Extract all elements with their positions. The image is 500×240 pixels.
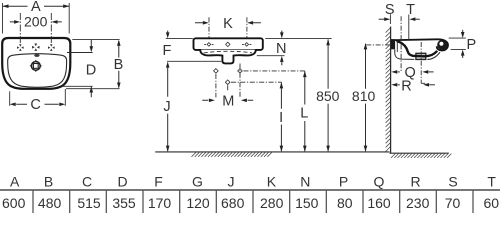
svg-text:Q: Q	[374, 174, 385, 190]
wall hatching	[386, 28, 391, 152]
svg-text:D: D	[117, 174, 127, 190]
svg-text:355: 355	[112, 195, 136, 211]
svg-text:R: R	[401, 78, 411, 94]
dimension K extension centrelines	[209, 17, 247, 37]
svg-text:B: B	[44, 174, 53, 190]
svg-text:T: T	[487, 174, 496, 190]
dimension N top arrow	[281, 31, 283, 34]
svg-text:L: L	[300, 106, 308, 122]
dimension I line and arrows	[280, 82, 282, 151]
dimension D extension lines	[63, 53, 93, 87]
svg-text:70: 70	[445, 195, 461, 211]
fixing hole centrelines vertical	[216, 64, 240, 98]
wall face line	[390, 27, 392, 153]
fixing hole centreline horizontal to L	[244, 70, 305, 72]
front tap hole centre	[226, 42, 230, 46]
wall face extension above	[389, 14, 391, 24]
dimension B extension lines	[66, 40, 120, 89]
drain symbol	[30, 60, 43, 73]
washbasin front lower body with drain notch	[200, 50, 255, 64]
svg-text:S: S	[448, 174, 457, 190]
drain centreline	[420, 42, 422, 83]
S/T shared centreline	[400, 16, 402, 72]
floor line	[155, 151, 389, 153]
svg-text:K: K	[267, 174, 277, 190]
svg-text:600: 600	[2, 195, 26, 211]
tap hole centre	[34, 44, 37, 47]
side profile rim and bullnose	[395, 39, 448, 50]
svg-text:K: K	[223, 16, 233, 32]
dimension B line and arrows	[118, 41, 120, 88]
underside extension line right	[257, 55, 285, 57]
table divider line	[0, 189, 500, 191]
svg-text:G: G	[192, 174, 203, 190]
fixing hole right diamond	[238, 69, 243, 74]
bullnose filled	[437, 40, 447, 50]
dimension 850 line and arrows	[327, 39, 329, 151]
svg-text:N: N	[276, 41, 286, 57]
front tap hole right	[245, 43, 249, 47]
dimension L line and arrows	[304, 71, 306, 151]
svg-text:D: D	[86, 62, 96, 78]
dimension 200 line and arrows	[10, 21, 62, 23]
svg-text:T: T	[406, 2, 415, 18]
svg-text:60: 60	[484, 195, 500, 211]
tap hole right	[50, 44, 53, 47]
dimension A extension lines	[3, 3, 70, 34]
svg-text:N: N	[300, 174, 310, 190]
svg-text:B: B	[114, 57, 124, 73]
table column separators	[33, 191, 473, 213]
dimension T extension line	[408, 15, 410, 40]
overflow slot	[34, 54, 39, 57]
svg-text:170: 170	[148, 195, 172, 211]
svg-text:A: A	[10, 174, 20, 190]
drain trap boss	[416, 53, 426, 59]
svg-text:200: 200	[24, 13, 48, 29]
dimension C line and arrows	[16, 103, 59, 105]
dimension K line and arrows	[195, 22, 261, 24]
waste centreline horizontal to I	[231, 81, 282, 83]
dimension N bottom arrow	[280, 56, 284, 62]
svg-text:680: 680	[221, 195, 245, 211]
svg-text:160: 160	[367, 195, 391, 211]
washbasin top-view inner bowl outline	[8, 54, 67, 88]
svg-text:S: S	[385, 2, 395, 18]
svg-text:F: F	[154, 174, 163, 190]
dimension J line and arrows	[167, 67, 169, 151]
rim level extension line	[166, 38, 332, 40]
svg-text:C: C	[82, 174, 92, 190]
svg-text:F: F	[162, 43, 171, 59]
svg-text:80: 80	[337, 195, 353, 211]
svg-text:P: P	[339, 174, 348, 190]
svg-text:M: M	[222, 94, 234, 110]
dimension R arrows	[391, 83, 397, 87]
svg-text:I: I	[279, 110, 283, 126]
washbasin front deck band	[194, 38, 263, 50]
dimension P extension lines	[449, 38, 466, 49]
svg-text:280: 280	[260, 195, 284, 211]
dimension M line and arrows	[202, 99, 253, 101]
dimension A line and arrows	[3, 5, 70, 7]
svg-text:J: J	[163, 99, 170, 115]
svg-text:850: 850	[316, 88, 340, 104]
dimension 200 extension centrelines	[20, 13, 51, 45]
dimension T arrow	[409, 17, 415, 21]
mounting bracket (section, filled)	[391, 39, 395, 49]
dimension F bottom arrow	[166, 62, 170, 68]
dimension P arrows	[462, 30, 464, 33]
svg-text:P: P	[466, 37, 476, 53]
svg-text:120: 120	[186, 195, 210, 211]
waste centre diamond	[225, 80, 230, 85]
floor hatching right	[391, 154, 451, 158]
tap hole left	[19, 44, 22, 47]
front tap hole left	[207, 43, 211, 47]
side profile bowl curve	[397, 41, 438, 56]
floor hatching under basin	[192, 152, 272, 156]
fixing hole left diamond	[214, 69, 219, 74]
dimension S arrow at wall	[379, 18, 385, 20]
svg-text:150: 150	[295, 195, 319, 211]
svg-text:J: J	[228, 174, 235, 190]
svg-text:C: C	[30, 97, 40, 113]
side profile underside	[395, 49, 440, 59]
dimension Q arrows	[391, 70, 397, 74]
dimension D line and arrows	[90, 40, 92, 97]
hidden bowl edge (dashed)	[204, 51, 252, 53]
svg-text:810: 810	[352, 88, 376, 104]
fixing level centreline to wall	[366, 44, 390, 46]
overflow channel line	[396, 41, 398, 52]
svg-text:480: 480	[38, 195, 62, 211]
svg-text:R: R	[411, 174, 421, 190]
underside extension line left	[167, 60, 221, 62]
svg-text:515: 515	[77, 195, 101, 211]
svg-text:230: 230	[406, 195, 430, 211]
R corner foot	[421, 82, 425, 84]
dimension F top arrow	[167, 31, 169, 34]
washbasin top-view outer outline	[2, 38, 70, 89]
dimension C extension lines	[10, 89, 66, 106]
dimension 810 line and arrows	[365, 44, 367, 152]
floor line right	[390, 152, 449, 154]
